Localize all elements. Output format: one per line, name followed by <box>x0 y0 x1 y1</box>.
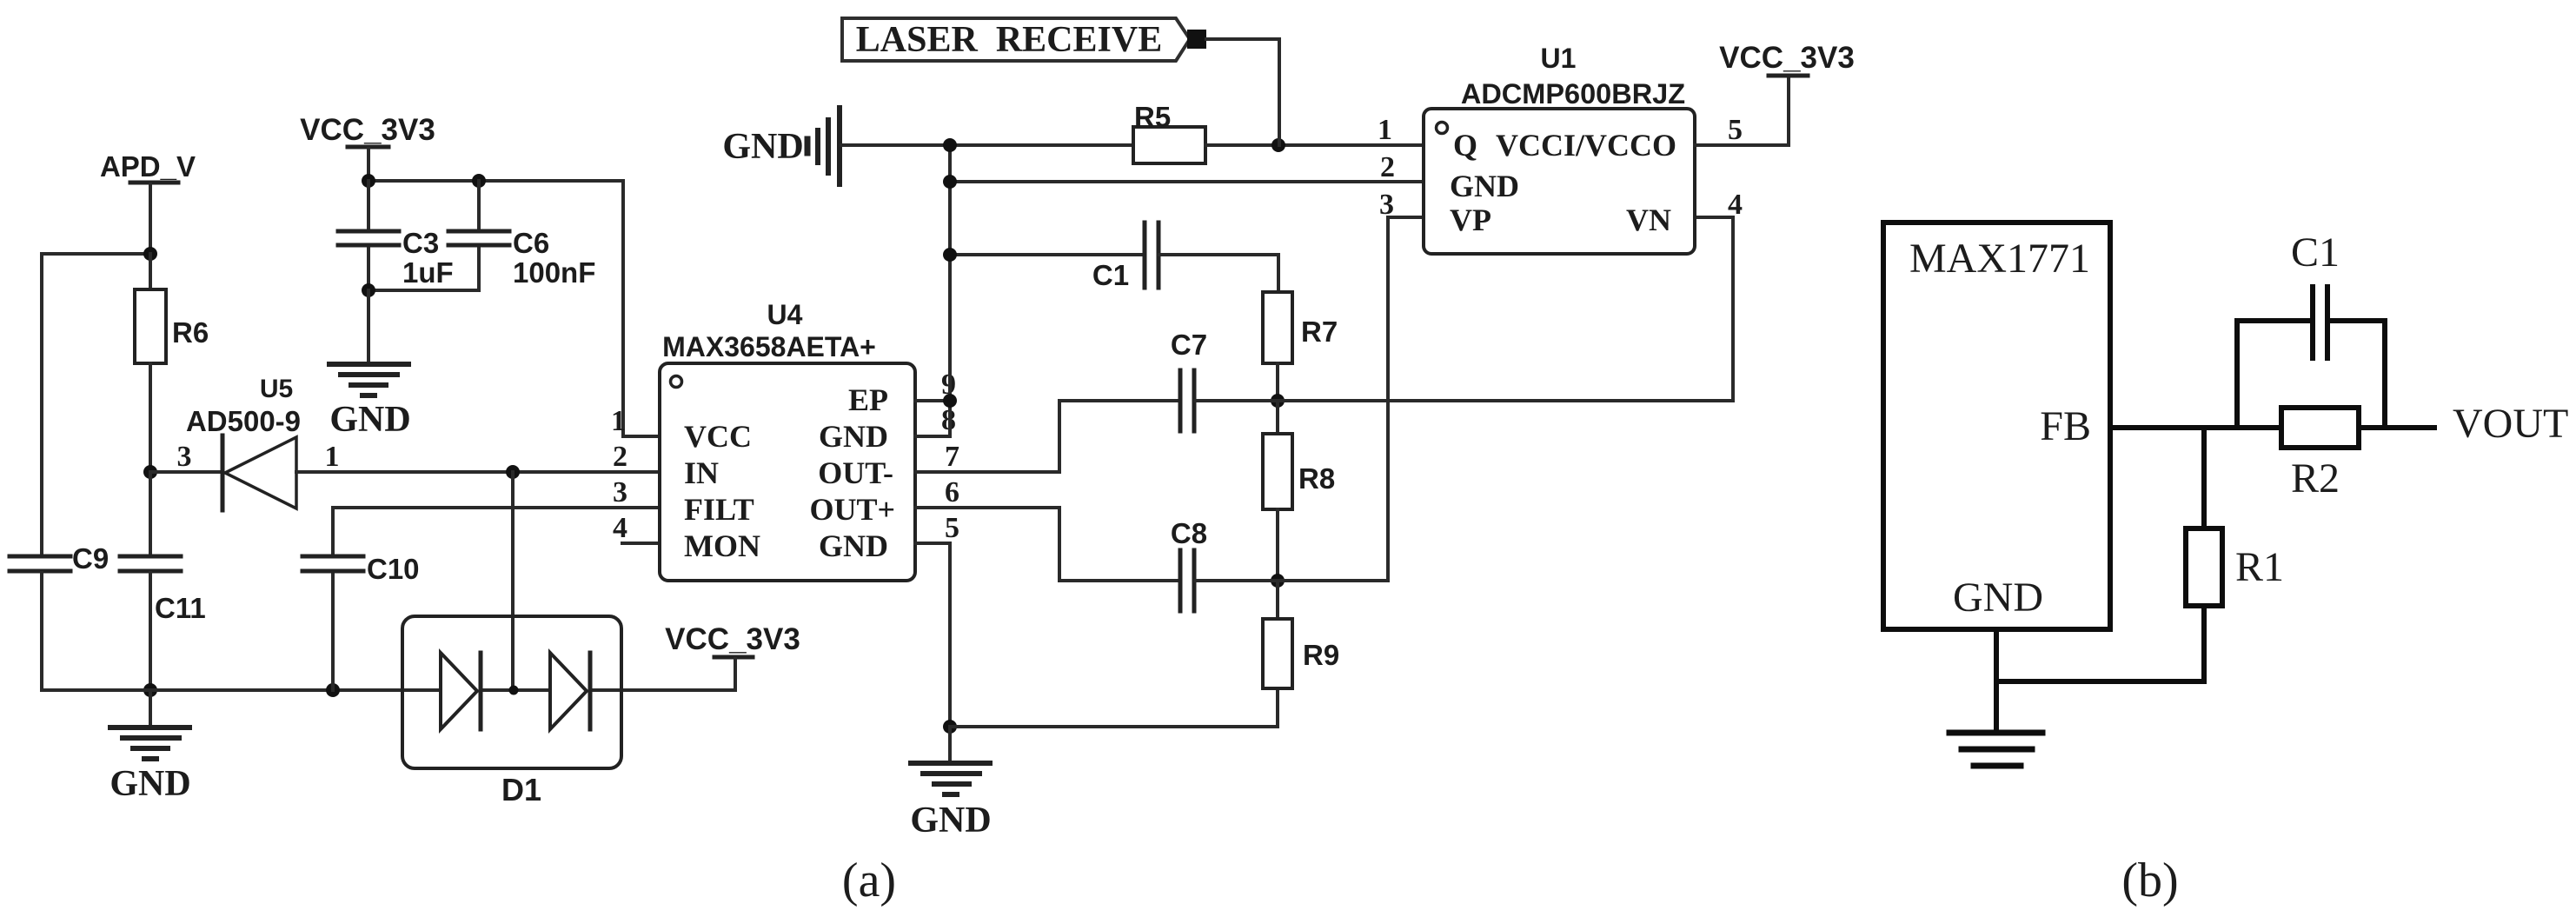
IC MAX1771 body <box>1883 223 2110 629</box>
net label VCC_3V3 (D1) <box>665 622 800 657</box>
svg-text:(a): (a) <box>842 854 896 907</box>
svg-text:1uF: 1uF <box>402 256 454 289</box>
wire C8 row to VP riser <box>1278 217 1424 581</box>
wire U4 pin9 stub (EP) <box>915 399 950 402</box>
svg-text:VCC_3V3: VCC_3V3 <box>1719 41 1855 75</box>
svg-text:ADCMP600BRJZ: ADCMP600BRJZ <box>1461 78 1685 110</box>
svg-text:C6: C6 <box>513 227 549 259</box>
svg-text:FB: FB <box>2040 403 2091 449</box>
wire GND flag to R5 <box>841 143 1133 147</box>
wire U4 pin5 stub and drop to ground <box>915 543 950 727</box>
wire to C9 branch <box>42 254 150 555</box>
diode D1b <box>550 653 590 729</box>
svg-text:VCC: VCC <box>684 419 752 454</box>
svg-text:EP: EP <box>848 382 888 417</box>
wire R8 top <box>1276 401 1279 434</box>
wire to diode U5 <box>150 470 222 474</box>
wire C1 row right <box>1159 255 1278 292</box>
wire ground row to R9 <box>950 688 1278 727</box>
wire C8 branch from pin6 <box>1059 508 1180 581</box>
svg-text:VP: VP <box>1450 203 1491 237</box>
capacitor C1 (b) <box>2291 229 2340 358</box>
wire C3 stem <box>367 181 370 290</box>
power ground flag GND (left of R5) <box>722 108 840 184</box>
junction node bus/R5 row <box>943 138 957 152</box>
junction node between D1 diodes <box>509 686 519 695</box>
wire C9 bottom <box>40 573 43 690</box>
wire C7 to junction <box>1195 399 1278 402</box>
resistor R1 <box>2186 528 2284 606</box>
junction node C10/rail <box>326 683 340 697</box>
junction node C11/GND rail <box>143 683 157 697</box>
svg-text:FILT: FILT <box>684 492 754 527</box>
wire U1 pin5 to VCC_3V3 <box>1695 77 1789 145</box>
svg-text:C3: C3 <box>402 227 439 259</box>
junction node bus/pin2 row <box>943 175 957 189</box>
capacitor C11 <box>120 556 206 624</box>
net label VCC_3V3 (U1) <box>1719 41 1855 76</box>
svg-text:MON: MON <box>684 528 760 563</box>
svg-text:MAX1771: MAX1771 <box>1909 236 2090 282</box>
junction node EP bus / pin9 <box>943 394 957 408</box>
svg-text:U5: U5 <box>260 375 293 403</box>
wire U4 pin4 stub (MON) <box>622 542 660 545</box>
svg-text:GND: GND <box>1450 169 1519 203</box>
IC U1 ADCMP600BRJZ body <box>1424 43 1695 254</box>
diode D1a <box>441 653 481 729</box>
junction node R8/R9/C8 <box>1271 574 1285 588</box>
wire R8 bottom <box>1276 509 1279 581</box>
wire C6 to C3 bottom link <box>368 289 479 292</box>
wire R7 bottom <box>1276 363 1279 401</box>
svg-text:VOUT: VOUT <box>2453 401 2568 447</box>
svg-text:1: 1 <box>1378 114 1392 146</box>
resistor R9 <box>1263 619 1339 688</box>
svg-text:VCCI/VCCO: VCCI/VCCO <box>1496 128 1676 163</box>
resistor R6 <box>135 289 209 363</box>
junction node IN/D1 <box>506 465 520 479</box>
wire C6 stem <box>477 181 481 290</box>
svg-text:VCC_3V3: VCC_3V3 <box>665 622 800 656</box>
svg-text:LASER RECEIVE: LASER RECEIVE <box>856 20 1162 60</box>
capacitor C8 <box>1171 517 1207 611</box>
resistor R5 <box>1133 101 1205 163</box>
svg-text:5: 5 <box>945 512 959 544</box>
svg-text:1: 1 <box>325 441 340 473</box>
ground symbol under U4 pin5 <box>911 727 990 794</box>
capacitor C1 (comparator input) <box>1092 223 1159 291</box>
svg-text:4: 4 <box>1728 189 1743 221</box>
svg-text:6: 6 <box>945 476 959 508</box>
svg-text:Q: Q <box>1453 128 1477 163</box>
wire D1 riser <box>511 472 515 688</box>
svg-text:R9: R9 <box>1303 639 1339 671</box>
wire R5 to U1 pin1 <box>1205 143 1424 147</box>
svg-text:C1: C1 <box>1092 259 1129 291</box>
svg-text:(b): (b) <box>2121 854 2178 907</box>
svg-text:C11: C11 <box>155 592 206 624</box>
wire C7 row to VN riser <box>1278 217 1733 401</box>
resistor R2 <box>2281 408 2359 502</box>
svg-text:U1: U1 <box>1541 43 1577 74</box>
svg-text:GND: GND <box>910 801 991 841</box>
node square at flag tip <box>1187 30 1206 49</box>
wire VCC rail drop to U4 pin1 <box>623 181 660 436</box>
wire U1 pin2 (GND row) <box>950 180 1424 183</box>
svg-text:C8: C8 <box>1171 517 1207 549</box>
wire C11 top <box>149 472 152 555</box>
svg-text:2: 2 <box>1380 151 1395 183</box>
capacitor C6 100nF <box>448 227 595 289</box>
wire C10 stem <box>331 508 335 690</box>
capacitor C3 1uF <box>338 227 454 289</box>
wire U4 pin6 (OUT+) <box>915 506 1059 509</box>
wire C1 bypass loop <box>2237 321 2385 428</box>
svg-text:R2: R2 <box>2291 455 2340 502</box>
svg-text:C10: C10 <box>367 553 420 585</box>
wire U4 pin7 (OUT-) <box>915 470 1059 474</box>
junction node R6/U5/C11 <box>143 465 157 479</box>
dual diode D1 box <box>402 616 621 807</box>
svg-text:7: 7 <box>945 441 959 473</box>
svg-text:5: 5 <box>1728 114 1743 146</box>
svg-text:D1: D1 <box>501 772 541 807</box>
junction node VCC/C6 <box>472 174 486 188</box>
svg-text:1: 1 <box>611 405 626 437</box>
svg-text:OUT-: OUT- <box>818 455 893 490</box>
wire U4 pin8 stub (GND) <box>915 401 950 436</box>
svg-text:GND: GND <box>329 400 410 440</box>
wire R6 top <box>149 254 152 289</box>
svg-text:C7: C7 <box>1171 329 1207 361</box>
ground symbol under C3 <box>329 364 408 395</box>
wire MAX1771 GND stem <box>1994 629 1999 732</box>
wire VCC_3V3 stem <box>367 149 370 181</box>
svg-text:3: 3 <box>1379 189 1394 221</box>
svg-text:OUT+: OUT+ <box>809 492 895 527</box>
svg-text:AD500-9: AD500-9 <box>186 405 301 437</box>
svg-text:MAX3658AETA+: MAX3658AETA+ <box>662 331 876 362</box>
wire U5 to U4 pin2 (IN) <box>296 470 660 474</box>
wire main vertical bus (EP net) <box>948 145 952 401</box>
wire C7 branch from pin7 <box>1059 401 1180 472</box>
svg-text:100nF: 100nF <box>513 256 595 289</box>
wire C1 row left <box>950 253 1144 256</box>
ground symbol under C11 <box>110 690 189 759</box>
svg-text:R8: R8 <box>1298 462 1335 495</box>
resistor R7 <box>1263 292 1338 363</box>
svg-text:VCC_3V3: VCC_3V3 <box>300 113 435 147</box>
svg-text:R1: R1 <box>2235 544 2284 590</box>
net label APD_V <box>100 150 196 183</box>
junction node R7/R8/C7 <box>1271 394 1285 408</box>
wire flag to R5 net <box>1206 39 1279 145</box>
junction node VCC/C3 <box>362 174 375 188</box>
ground symbol (b) <box>1949 733 2042 766</box>
wire D1 to VCC_3V3 <box>734 659 737 690</box>
svg-text:R6: R6 <box>172 316 209 349</box>
wire C11 bottom <box>149 573 152 690</box>
photodiode U5 AD500-9 <box>186 375 301 510</box>
svg-text:GND: GND <box>722 127 803 167</box>
svg-text:GND: GND <box>819 528 888 563</box>
wire C8 to junction <box>1195 579 1278 582</box>
svg-text:VN: VN <box>1626 203 1671 237</box>
capacitor C7 <box>1171 329 1207 431</box>
IC U4 MAX3658AETA+ body <box>660 299 915 581</box>
wire R9 top <box>1276 581 1279 619</box>
wire C3 to ground <box>367 290 370 362</box>
wire R1 riser <box>2201 428 2207 528</box>
svg-text:3: 3 <box>177 441 192 473</box>
junction node pin5 ground <box>943 720 957 734</box>
wire C10 row to U4 pin3 (FILT) <box>333 506 660 509</box>
junction node C3/C6 bottom <box>362 283 375 297</box>
capacitor C10 <box>302 553 420 585</box>
wire top rail <box>368 179 623 183</box>
junction node APD_V/R6/C9 <box>143 247 157 261</box>
svg-text:2: 2 <box>613 441 627 473</box>
wire APD_V stem <box>149 184 152 254</box>
svg-text:GND: GND <box>1953 575 2043 621</box>
svg-text:R7: R7 <box>1301 316 1338 348</box>
svg-text:C9: C9 <box>72 542 109 575</box>
svg-text:C1: C1 <box>2291 229 2340 276</box>
wire R6 bottom <box>149 363 152 472</box>
svg-text:IN: IN <box>684 455 719 490</box>
svg-text:4: 4 <box>613 512 627 544</box>
capacitor C9 <box>10 542 109 575</box>
svg-text:R5: R5 <box>1134 101 1171 133</box>
svg-text:GND: GND <box>819 419 888 454</box>
svg-text:APD_V: APD_V <box>100 150 196 183</box>
resistor R8 <box>1263 434 1335 509</box>
net label VCC_3V3 (top left) <box>300 113 435 147</box>
svg-text:GND: GND <box>110 764 190 804</box>
sheet entry LASER RECEIVE <box>842 18 1190 61</box>
junction node R5/flag riser <box>1271 138 1285 152</box>
svg-text:3: 3 <box>613 476 627 508</box>
junction node bus/C1 row <box>943 248 957 262</box>
wire R1 bottom <box>1996 606 2204 681</box>
svg-text:U4: U4 <box>767 299 803 330</box>
wire bottom rail <box>42 688 735 692</box>
wire FB row to VOUT <box>2110 425 2434 430</box>
